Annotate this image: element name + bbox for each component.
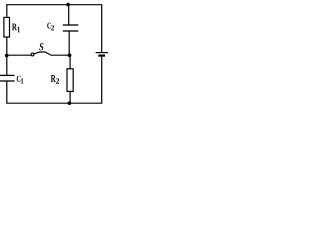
label R1 bbox=[12, 24, 20, 33]
capacitor C1 bbox=[0, 75, 15, 81]
left wire lower segment bbox=[6, 81, 8, 103]
junction dot bottom bbox=[68, 101, 72, 105]
junction dot left-middle bbox=[5, 54, 9, 58]
resistor R2 bbox=[67, 69, 73, 92]
junction dot middle (C2/R2 node) bbox=[68, 53, 72, 57]
C2 branch upper wire bbox=[68, 5, 70, 25]
right wire lower segment bbox=[101, 57, 103, 103]
right wire upper segment bbox=[101, 5, 103, 53]
label S bbox=[39, 43, 43, 50]
label C2 bbox=[47, 23, 54, 31]
switch S blade bbox=[34, 52, 51, 55]
resistor R1 bbox=[4, 17, 10, 37]
R2 bottom wire bbox=[69, 91, 71, 103]
switch S pivot circle bbox=[31, 53, 34, 56]
battery cell bbox=[96, 53, 108, 56]
label C1 bbox=[17, 76, 24, 84]
label R2 bbox=[51, 75, 59, 84]
R2 top wire bbox=[69, 55, 71, 69]
left wire middle segment bbox=[6, 37, 8, 75]
capacitor C2 bbox=[63, 25, 79, 31]
junction dot top (C2 branch) bbox=[66, 3, 70, 7]
middle wire left of switch bbox=[7, 54, 32, 56]
left wire upper segment bbox=[6, 5, 8, 18]
middle wire right of switch bbox=[51, 54, 70, 56]
C2 branch lower wire bbox=[68, 31, 70, 55]
top wire bbox=[6, 4, 102, 6]
bottom wire bbox=[6, 102, 102, 104]
